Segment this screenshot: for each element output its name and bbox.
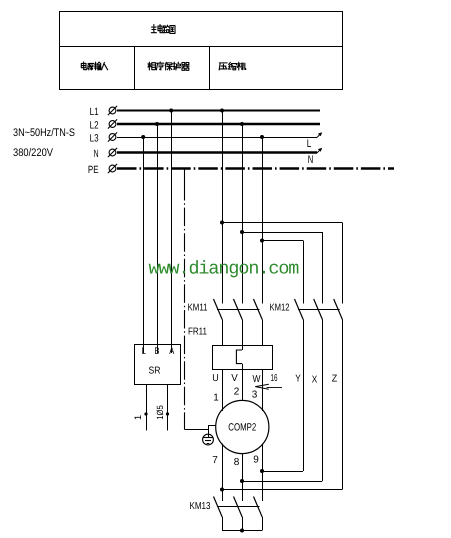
svg-text:Z: Z [332,374,338,385]
wire V phase through FR11 [242,364,244,401]
junction: branch to KM12 pole 1 [260,239,264,243]
junction: branch to KM12 pole 3 [220,221,224,225]
svg-text:B: B [155,346,160,357]
junction on L3 (SR tap) [141,135,145,139]
SR output wire 105 [167,385,169,431]
svg-text:V: V [231,373,238,384]
wire motor 9 to KM12 pole 1 [262,471,303,473]
svg-text:3N~50Hz/TN-S: 3N~50Hz/TN-S [13,127,75,139]
junction star point [240,529,244,533]
KM12 linkage bar [298,309,340,311]
svg-text:L: L [142,346,146,357]
junction on L1 (SR tap) [169,109,173,113]
protective earth symbol [203,434,214,445]
wire branch L1 to KM12 pole 3 [222,223,343,304]
contactor KM13 pole 1 [214,497,223,531]
wire L3 to SR terminal L [143,137,145,353]
wire motor 8 to KM12 pole 2 [242,481,322,483]
terminal N (circle with slash) [108,148,117,157]
svg-text:Y: Y [295,374,301,385]
table cell label 电源输入 [81,62,107,70]
svg-text:N: N [308,154,314,166]
wire branch L2 to KM12 pole 2 [242,232,323,304]
contactor KM13 pole 3 [254,497,263,531]
wire PE down to motor earth (dash-dot) [184,169,186,183]
svg-text:SR: SR [149,366,161,377]
svg-text:1: 1 [133,415,144,420]
terminal PE (circle with slash) [108,164,117,173]
svg-text:16: 16 [271,373,278,384]
arrow: N continues to control circuit [317,148,322,153]
terminal L3 (circle with slash) [108,132,117,141]
contactor KM11 pole 2 [234,299,243,350]
leader arrow on wire 16 [255,384,282,389]
KM11 linkage bar [217,309,260,311]
svg-text:L3: L3 [90,132,99,144]
svg-text:1Ø5: 1Ø5 [155,405,165,420]
contactor KM11 pole 1 [214,299,223,345]
svg-text:N: N [94,148,99,160]
wire PE to earth terminal [185,426,216,435]
svg-text:8: 8 [234,457,240,468]
svg-text:KM12: KM12 [270,303,290,314]
wire L3 down to KM11 pole 3 [262,137,264,304]
FR11 heater element jog (middle phase) [236,350,242,364]
svg-text:L: L [307,138,312,150]
svg-text:1: 1 [213,393,219,404]
star point bar [222,530,262,532]
svg-text:KM11: KM11 [188,303,208,314]
junction on L3 (main tap) [260,135,264,139]
contactor KM11 pole 3 [254,299,263,345]
junction on L2 (SR tap) [155,122,159,126]
wire L2 to SR terminal B [157,124,159,353]
compressor motor COMP2 [216,400,269,453]
wire motor 9 down [262,444,264,502]
svg-text:L1: L1 [90,106,99,118]
wire-number tick (1) [144,412,147,415]
svg-text:COMP2: COMP2 [228,422,256,434]
contactor KM12 pole 1 [295,299,304,471]
svg-text:L2: L2 [90,119,99,131]
contactor KM12 pole 3 [334,299,343,490]
svg-text:A: A [169,346,174,357]
wire branch L3 to KM12 pole 1 [262,241,304,304]
arrow: L3 continues to control circuit [317,132,322,137]
bus L1 [117,110,320,112]
table title 主电路图 [151,25,175,34]
svg-text:KM13: KM13 [190,501,211,512]
thermal overload relay FR11 (box) [213,346,273,370]
svg-text:W: W [253,374,261,385]
terminal L1 (circle with slash) [108,106,117,115]
svg-text:3: 3 [252,390,258,401]
table cell label 压缩机 [219,62,246,70]
bus L2 [117,123,320,125]
svg-text:FR11: FR11 [188,327,207,338]
wire U phase FR11 to motor [222,369,224,411]
table cell label 相序保护器 [148,62,189,70]
junction motor 7 / KM12 pole 3 [220,488,224,492]
bus N [117,151,317,153]
svg-text:2: 2 [234,387,240,398]
table: drawing header frame [60,12,343,90]
junction on L1 (main tap) [220,109,224,113]
wire L1 to SR terminal A [171,111,173,354]
svg-text:PE: PE [88,164,99,176]
junction on L2 (main tap) [240,122,244,126]
wire motor 7 to KM12 pole 3 [222,489,342,491]
contactor KM13 pole 2 [234,497,243,531]
SR output wire 1 [146,385,148,431]
junction: branch to KM12 pole 2 [240,230,244,234]
junction motor 8 / KM12 pole 2 [240,479,244,483]
svg-text:U: U [212,373,219,384]
svg-text:www.diangon.com: www.diangon.com [149,259,300,280]
junction motor 9 / KM12 pole 1 [260,469,264,473]
phase-sequence relay SR (box) [135,345,181,385]
wire W phase FR11 to motor [262,369,264,411]
KM13 linkage bar [218,506,260,508]
bus L3 [117,137,317,139]
svg-text:380/220V: 380/220V [13,147,54,159]
svg-text:7: 7 [212,455,218,466]
wire motor 8 down [242,454,244,501]
wire-number tick (105) [166,412,169,415]
terminal L2 (circle with slash) [108,119,117,128]
wire L2 down to KM11 pole 2 [242,124,244,304]
wire L1 down to KM11 pole 1 [222,111,224,304]
svg-text:X: X [312,375,318,386]
wire motor 7 down [222,444,224,502]
bus PE [117,167,394,169]
contactor KM12 pole 2 [314,299,323,481]
svg-text:9: 9 [253,455,259,466]
